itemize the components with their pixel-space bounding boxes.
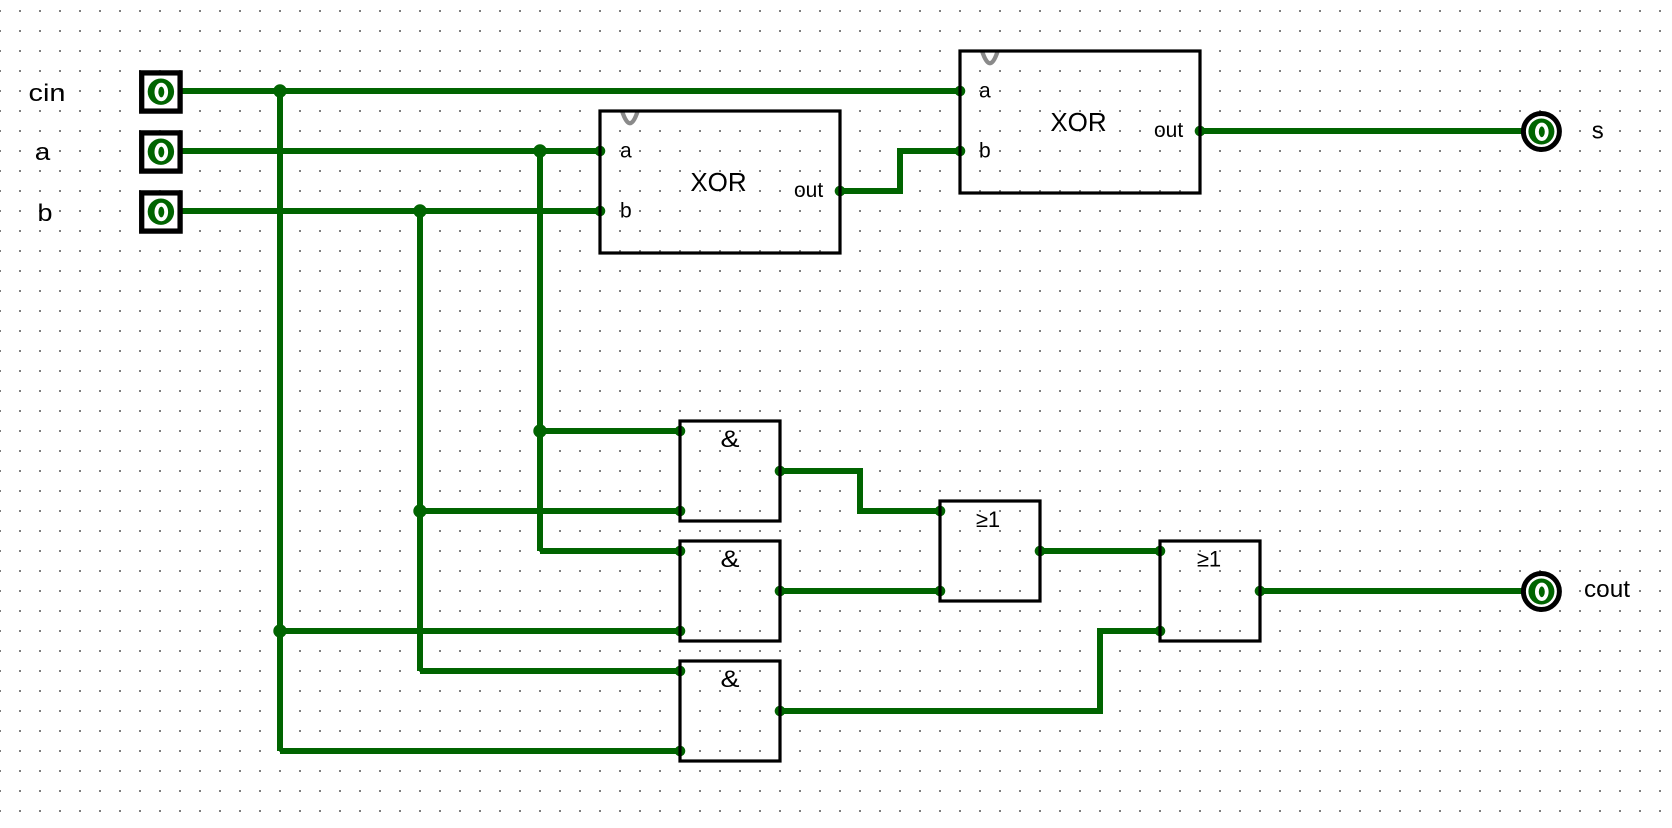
XOR block U1 body [600,111,840,253]
output s [1523,114,1559,150]
pin XOR1.b [595,206,606,217]
wire cin net: branch to AND2 pin in2 [280,628,680,634]
pin XOR2.a [955,86,966,97]
pin XOR2.b [955,146,966,157]
junction cin net at (280,91) [273,84,286,97]
pin AND3.out [775,706,786,717]
wire b net: input b to XOR1 pin b [178,208,600,214]
pin OR1.in1 [935,506,946,517]
svg-text:out: out [1154,119,1183,142]
junction a net at (540,431) [533,424,546,437]
wire b net: branch to AND3 pin in1 [420,668,680,674]
wire a net: vertical drop at x=540 [537,151,543,551]
wire OR1 out to OR2 pin in1 [1040,548,1160,554]
pin OR1.out [1035,546,1046,557]
pin OR2.out [1255,586,1266,597]
svg-text:a: a [979,80,991,103]
svg-text:a: a [620,140,632,163]
wire a net: input a to XOR1 pin a [178,148,600,154]
svg-text:cout: cout [1584,576,1630,603]
pin AND2.out [775,586,786,597]
svg-text:≥1: ≥1 [976,507,1000,532]
input b [142,193,180,231]
XOR block U2 test marker [982,51,998,64]
wire OR2 out to output cout [1260,588,1524,594]
pin AND1.out [775,466,786,477]
pin AND2.in1 [675,546,686,557]
wire cin net: input cin to XOR2 pin a [178,88,960,94]
junction cin net at (280,631) [273,624,286,637]
input cin [142,73,180,111]
pin AND1.in1 [675,426,686,437]
wire XOR2 out to output s [1200,128,1524,134]
output cout [1523,574,1559,610]
svg-text:&: & [721,666,740,693]
svg-text:XOR: XOR [690,167,746,197]
wire cin net: vertical drop at x=280 [277,91,283,751]
svg-text:&: & [721,426,740,453]
pin AND1.in2 [675,506,686,517]
input a [142,133,180,171]
pin OR2.in1 [1155,546,1166,557]
XOR block U2 body [960,51,1200,193]
pin AND2.in2 [675,626,686,637]
svg-text:XOR: XOR [1050,107,1106,137]
svg-text:&: & [721,546,740,573]
OR gate U7 body [1160,541,1260,641]
pin XOR1.a [595,146,606,157]
pin XOR1.out [835,186,846,197]
wire AND2 out to OR1 pin in2 [780,588,940,594]
wire b net: vertical drop at x=420 [417,211,423,671]
svg-text:a: a [35,139,51,166]
AND gate U3 body [680,421,780,521]
pin OR1.in2 [935,586,946,597]
pin AND3.in2 [675,746,686,757]
AND gate U4 body [680,541,780,641]
junction a net at (540,151) [533,144,546,157]
pin AND3.in1 [675,666,686,677]
svg-text:b: b [979,140,991,163]
pin OR2.in2 [1155,626,1166,637]
svg-text:b: b [38,200,53,227]
wire XOR1 out to XOR2 pin b [840,151,960,191]
wire a net: branch to AND2 pin in1 [540,548,680,554]
pin XOR2.out [1195,126,1206,137]
junction b net at (420,511) [413,504,426,517]
AND gate U5 body [680,661,780,761]
svg-text:b: b [620,200,632,223]
svg-text:s: s [1592,118,1604,145]
svg-text:cin: cin [29,80,66,107]
OR gate U6 body [940,501,1040,601]
wire cin net: branch to AND3 pin in2 [280,748,680,754]
svg-text:out: out [794,179,823,202]
svg-text:≥1: ≥1 [1197,547,1221,572]
wire a net: branch to AND1 pin in1 [540,428,680,434]
wire b net: branch to AND1 pin in2 [420,508,680,514]
wire AND3 out to OR2 pin in2 [780,631,1160,711]
XOR block U1 test marker [622,111,638,124]
junction b net at (420,211) [413,204,426,217]
wire AND1 out to OR1 pin in1 [780,471,940,511]
